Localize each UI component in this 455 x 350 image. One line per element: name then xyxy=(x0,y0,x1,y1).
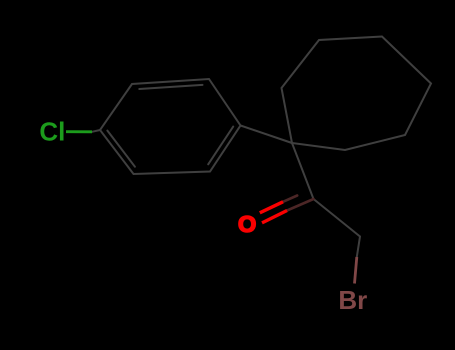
wire: bond carbonyl C to CH2 xyxy=(314,199,361,237)
wire: bond stub to Br (dark red part) xyxy=(355,257,357,284)
wire: bond CH2 to Br (dark part) xyxy=(357,237,360,258)
wire: C=O parallel line dark part xyxy=(283,196,297,202)
wire: green bond stub from Cl xyxy=(66,130,92,133)
aromatic inner bond top (TL-TR) xyxy=(139,85,202,89)
wire: bond phenyl R to quaternary C xyxy=(241,126,293,144)
cycloheptane ring xyxy=(282,37,432,151)
wire: bond quaternary C to carbonyl C xyxy=(292,143,314,199)
wire: C=O main line dark part xyxy=(287,199,314,211)
aromatic inner bond right (R-BR) xyxy=(208,127,233,165)
wire: bond ring to Cl (dark part) xyxy=(92,130,100,132)
benzene ring (4-chlorophenyl) outline xyxy=(92,37,431,258)
aromatic inner bond left (BL-L) xyxy=(107,131,134,167)
svg-text:Cl: Cl xyxy=(39,117,65,147)
svg-text:O: O xyxy=(238,211,256,237)
wire: C=O parallel line red part xyxy=(260,202,283,213)
svg-text:Br: Br xyxy=(338,285,367,315)
wire: C=O main line red part xyxy=(262,211,287,223)
